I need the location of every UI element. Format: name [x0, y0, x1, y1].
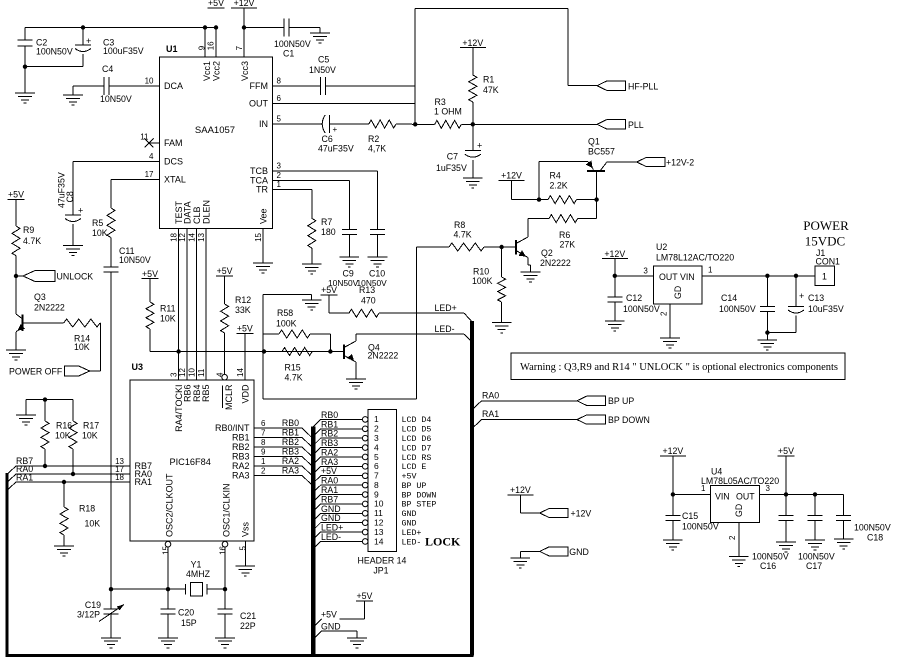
svg-text:VIN: VIN — [680, 272, 695, 282]
svg-text:LED+: LED+ — [402, 529, 422, 538]
svg-text:8: 8 — [261, 438, 266, 447]
svg-text:DATA: DATA — [183, 201, 193, 224]
svg-text:GND: GND — [402, 510, 417, 519]
svg-text:FAM: FAM — [164, 138, 183, 148]
svg-text:180: 180 — [321, 227, 336, 237]
svg-text:10K: 10K — [82, 431, 98, 441]
svg-text:LCD D5: LCD D5 — [402, 426, 432, 435]
svg-text:2N2222: 2N2222 — [34, 303, 65, 313]
svg-text:1: 1 — [261, 457, 266, 466]
svg-text:LCD E: LCD E — [402, 463, 427, 472]
svg-text:R9: R9 — [23, 225, 34, 235]
svg-text:R10: R10 — [473, 267, 489, 277]
svg-text:4.7K: 4.7K — [285, 373, 303, 383]
svg-text:+12V: +12V — [663, 446, 684, 456]
svg-text:+5V: +5V — [237, 324, 253, 334]
svg-text:OUT: OUT — [659, 272, 678, 282]
svg-text:RA3: RA3 — [232, 470, 250, 480]
svg-text:13: 13 — [197, 232, 206, 241]
svg-text:C12: C12 — [626, 293, 642, 303]
svg-text:RA3: RA3 — [282, 465, 299, 475]
svg-text:1: 1 — [277, 180, 282, 189]
svg-text:Vss: Vss — [241, 521, 251, 537]
svg-text:C14: C14 — [721, 293, 737, 303]
svg-text:FFM: FFM — [250, 81, 269, 91]
svg-text:5: 5 — [277, 115, 282, 124]
svg-text:33K: 33K — [235, 305, 251, 315]
svg-text:17: 17 — [145, 170, 154, 179]
svg-text:100N50V: 100N50V — [854, 523, 891, 533]
svg-text:VIN: VIN — [715, 492, 730, 502]
svg-text:Vee: Vee — [259, 208, 269, 224]
svg-text:27K: 27K — [560, 240, 576, 250]
svg-text:DLEN: DLEN — [201, 200, 211, 224]
svg-text:9: 9 — [261, 447, 266, 456]
svg-text:Q1: Q1 — [588, 137, 600, 147]
svg-text:Warning : Q3,R9 and R14 " UNLO: Warning : Q3,R9 and R14 " UNLOCK " is op… — [520, 362, 838, 373]
svg-text:6: 6 — [261, 419, 266, 428]
svg-text:DCS: DCS — [164, 157, 183, 167]
svg-text:100N50V: 100N50V — [798, 552, 835, 562]
svg-text:Y1: Y1 — [191, 560, 202, 570]
svg-text:14: 14 — [236, 368, 245, 377]
svg-text:LM78L12AC/TO220: LM78L12AC/TO220 — [656, 253, 734, 263]
svg-text:R1: R1 — [483, 75, 494, 85]
svg-text:GD: GD — [734, 504, 744, 517]
svg-text:2N2222: 2N2222 — [368, 351, 399, 361]
svg-text:OUT: OUT — [736, 492, 755, 502]
svg-text:1 OHM: 1 OHM — [434, 107, 462, 117]
svg-text:+: + — [78, 206, 83, 216]
svg-text:RB6: RB6 — [182, 385, 192, 403]
svg-text:C4: C4 — [102, 64, 113, 74]
svg-text:LED-: LED- — [402, 538, 422, 547]
svg-text:10: 10 — [145, 77, 154, 86]
svg-text:+5V: +5V — [356, 591, 372, 601]
svg-text:100N50V: 100N50V — [274, 39, 311, 49]
svg-text:R2: R2 — [368, 134, 379, 144]
svg-text:IN: IN — [259, 119, 268, 129]
svg-text:5: 5 — [239, 545, 248, 550]
svg-text:CON1: CON1 — [816, 257, 841, 267]
svg-text:R58: R58 — [277, 308, 293, 318]
svg-text:10K: 10K — [92, 228, 108, 238]
svg-text:C5: C5 — [318, 55, 329, 65]
svg-text:12: 12 — [178, 232, 187, 241]
svg-text:3/12P: 3/12P — [77, 610, 100, 620]
svg-text:RB2: RB2 — [282, 437, 299, 447]
svg-text:100N50V: 100N50V — [36, 47, 73, 57]
svg-text:1: 1 — [708, 266, 713, 275]
svg-text:+12V: +12V — [604, 249, 625, 259]
svg-text:U4: U4 — [711, 467, 722, 477]
svg-text:LCD RS: LCD RS — [402, 454, 432, 463]
svg-text:UNLOCK: UNLOCK — [57, 272, 94, 282]
svg-text:+5V: +5V — [8, 190, 24, 200]
svg-text:R11: R11 — [160, 304, 176, 314]
svg-text:C13: C13 — [808, 293, 824, 303]
svg-text:PIC16F84: PIC16F84 — [170, 457, 211, 467]
svg-text:JP1: JP1 — [373, 566, 388, 576]
svg-text:RA1: RA1 — [482, 409, 499, 419]
svg-text:LED-: LED- — [435, 324, 455, 334]
svg-text:POWER OFF: POWER OFF — [9, 367, 63, 377]
svg-text:LCD D7: LCD D7 — [402, 444, 432, 453]
svg-text:C8: C8 — [65, 191, 75, 202]
svg-text:R13: R13 — [359, 285, 375, 295]
svg-text:R5: R5 — [92, 218, 103, 228]
svg-text:R18: R18 — [79, 504, 95, 514]
svg-text:BP UP: BP UP — [608, 396, 634, 406]
svg-text:RB3: RB3 — [282, 446, 299, 456]
svg-text:+12V: +12V — [462, 38, 483, 48]
svg-text:VDD: VDD — [240, 384, 250, 404]
svg-text:RA1: RA1 — [135, 477, 153, 487]
svg-text:100K: 100K — [472, 276, 493, 286]
svg-text:15: 15 — [254, 232, 263, 241]
svg-text:Q3: Q3 — [34, 292, 46, 302]
svg-text:14: 14 — [374, 536, 384, 546]
svg-text:R15: R15 — [285, 363, 301, 373]
svg-text:+5V: +5V — [402, 473, 417, 482]
svg-text:+: + — [333, 125, 338, 134]
svg-text:4.7K: 4.7K — [23, 236, 41, 246]
svg-text:BP UP: BP UP — [402, 482, 427, 491]
svg-text:1uF35V: 1uF35V — [436, 163, 467, 173]
svg-text:RB2: RB2 — [232, 442, 250, 452]
svg-text:DCA: DCA — [164, 81, 183, 91]
svg-text:2: 2 — [728, 535, 737, 540]
svg-text:R7: R7 — [321, 217, 332, 227]
svg-text:100K: 100K — [276, 319, 297, 329]
svg-text:C15: C15 — [682, 511, 698, 521]
svg-text:R16: R16 — [56, 421, 72, 431]
svg-text:LCD D6: LCD D6 — [402, 435, 432, 444]
svg-text:LED+: LED+ — [435, 303, 457, 313]
svg-text:BC557: BC557 — [588, 147, 615, 157]
svg-text:RA2: RA2 — [282, 456, 299, 466]
svg-text:+5V: +5V — [778, 446, 794, 456]
svg-text:11: 11 — [197, 368, 206, 377]
svg-text:6: 6 — [277, 94, 282, 103]
svg-text:10K: 10K — [160, 314, 176, 324]
svg-text:470: 470 — [361, 295, 376, 305]
svg-text:3: 3 — [277, 162, 282, 171]
svg-text:15P: 15P — [181, 618, 197, 628]
svg-text:10N50V: 10N50V — [100, 94, 132, 104]
svg-text:BP DOWN: BP DOWN — [402, 491, 437, 500]
svg-text:3: 3 — [643, 267, 648, 276]
svg-text:10K: 10K — [74, 342, 90, 352]
svg-text:1: 1 — [701, 484, 706, 493]
svg-text:100N50V: 100N50V — [623, 304, 660, 314]
svg-text:+12V: +12V — [510, 485, 531, 495]
svg-text:SAA1057: SAA1057 — [195, 125, 235, 136]
svg-text:14: 14 — [188, 232, 197, 241]
svg-text:47K: 47K — [483, 85, 499, 95]
svg-text:MCLR: MCLR — [224, 384, 234, 410]
svg-text:4.7K: 4.7K — [454, 230, 472, 240]
svg-text:R12: R12 — [235, 295, 251, 305]
svg-text:2.2K: 2.2K — [550, 181, 568, 191]
svg-text:100uF35V: 100uF35V — [103, 46, 144, 56]
svg-text:11: 11 — [140, 133, 149, 142]
svg-text:C21: C21 — [240, 611, 256, 621]
svg-text:U3: U3 — [132, 362, 144, 372]
svg-text:C6: C6 — [322, 134, 333, 144]
svg-text:C19: C19 — [85, 600, 101, 610]
svg-text:RB1: RB1 — [282, 427, 299, 437]
svg-text:GND: GND — [569, 547, 589, 557]
svg-text:10N50V: 10N50V — [119, 255, 151, 265]
svg-text:Vcc3: Vcc3 — [240, 61, 250, 81]
svg-text:BP DOWN: BP DOWN — [608, 415, 650, 425]
svg-text:12: 12 — [178, 368, 187, 377]
svg-text:10uF35V: 10uF35V — [808, 304, 844, 314]
svg-text:100N50V: 100N50V — [682, 522, 719, 532]
svg-text:16: 16 — [206, 41, 215, 50]
svg-text:HF-PLL: HF-PLL — [628, 81, 658, 91]
svg-text:BP STEP: BP STEP — [402, 501, 437, 510]
svg-text:R3: R3 — [435, 97, 446, 107]
svg-text:R8: R8 — [454, 220, 465, 230]
svg-text:U2: U2 — [656, 242, 667, 252]
svg-text:47uF35V: 47uF35V — [318, 144, 354, 154]
svg-text:TR: TR — [256, 185, 268, 195]
svg-text:2: 2 — [277, 171, 282, 180]
svg-text:HEADER 14: HEADER 14 — [358, 556, 407, 566]
svg-text:2: 2 — [261, 466, 266, 475]
svg-text:7: 7 — [261, 428, 266, 437]
svg-text:Q2: Q2 — [541, 248, 553, 258]
svg-text:GND: GND — [321, 621, 341, 631]
svg-text:+: + — [477, 141, 482, 151]
svg-text:LOCK: LOCK — [425, 535, 461, 549]
svg-text:C16: C16 — [760, 561, 776, 571]
svg-text:RA0: RA0 — [482, 390, 499, 400]
svg-text:GD: GD — [673, 286, 683, 299]
svg-text:LCD D4: LCD D4 — [402, 416, 432, 425]
svg-text:+: + — [86, 36, 91, 46]
svg-text:+5V: +5V — [217, 266, 233, 276]
svg-text:C18: C18 — [867, 533, 883, 543]
svg-text:RA2: RA2 — [232, 461, 250, 471]
svg-text:15VDC: 15VDC — [805, 234, 845, 249]
svg-text:C17: C17 — [806, 561, 822, 571]
svg-text:GND: GND — [402, 519, 417, 528]
svg-text:RB3: RB3 — [232, 451, 250, 461]
svg-text:+5V: +5V — [208, 0, 224, 8]
svg-text:100N50V: 100N50V — [752, 552, 789, 562]
svg-text:+12V: +12V — [571, 508, 592, 518]
svg-text:4: 4 — [216, 372, 225, 377]
svg-text:3: 3 — [766, 484, 771, 493]
svg-text:+: + — [799, 291, 804, 301]
svg-text:4MHZ: 4MHZ — [186, 569, 211, 579]
svg-text:1N50V: 1N50V — [309, 65, 336, 75]
svg-text:+5V: +5V — [321, 609, 337, 619]
svg-text:10: 10 — [188, 368, 197, 377]
svg-text:7: 7 — [235, 45, 244, 50]
svg-text:RA1: RA1 — [16, 473, 33, 483]
svg-text:22P: 22P — [240, 621, 256, 631]
svg-text:RB5: RB5 — [201, 385, 211, 403]
svg-text:LED-: LED- — [321, 532, 341, 542]
svg-text:+5V: +5V — [321, 285, 337, 295]
svg-text:OSC1/CLKIN: OSC1/CLKIN — [221, 483, 231, 537]
svg-text:OUT: OUT — [249, 99, 269, 109]
svg-text:+12V: +12V — [501, 171, 522, 181]
svg-text:Vcc2: Vcc2 — [211, 61, 221, 81]
svg-text:2N2222: 2N2222 — [540, 258, 571, 268]
svg-text:4: 4 — [149, 152, 154, 161]
svg-text:XTAL: XTAL — [164, 175, 186, 185]
svg-text:8: 8 — [277, 77, 282, 86]
svg-text:C7: C7 — [447, 152, 458, 162]
svg-text:C1: C1 — [283, 49, 294, 59]
svg-text:10K: 10K — [85, 519, 101, 529]
svg-text:C20: C20 — [178, 608, 194, 618]
svg-text:U1: U1 — [166, 44, 178, 54]
svg-text:OSC2/CLKOUT: OSC2/CLKOUT — [165, 473, 175, 537]
svg-text:2: 2 — [660, 311, 669, 316]
svg-text:100N50V: 100N50V — [719, 304, 756, 314]
svg-text:PLL: PLL — [628, 120, 644, 130]
svg-text:R6: R6 — [559, 230, 570, 240]
svg-text:R17: R17 — [83, 421, 99, 431]
svg-text:POWER: POWER — [803, 218, 849, 233]
svg-text:+12V: +12V — [234, 0, 255, 8]
svg-text:R4: R4 — [550, 171, 561, 181]
svg-text:+5V: +5V — [142, 269, 158, 279]
svg-text:RB1: RB1 — [232, 432, 250, 442]
svg-text:10K: 10K — [55, 431, 71, 441]
svg-text:+12V-2: +12V-2 — [666, 158, 694, 168]
svg-text:1: 1 — [822, 272, 827, 282]
svg-text:4,7K: 4,7K — [368, 144, 386, 154]
